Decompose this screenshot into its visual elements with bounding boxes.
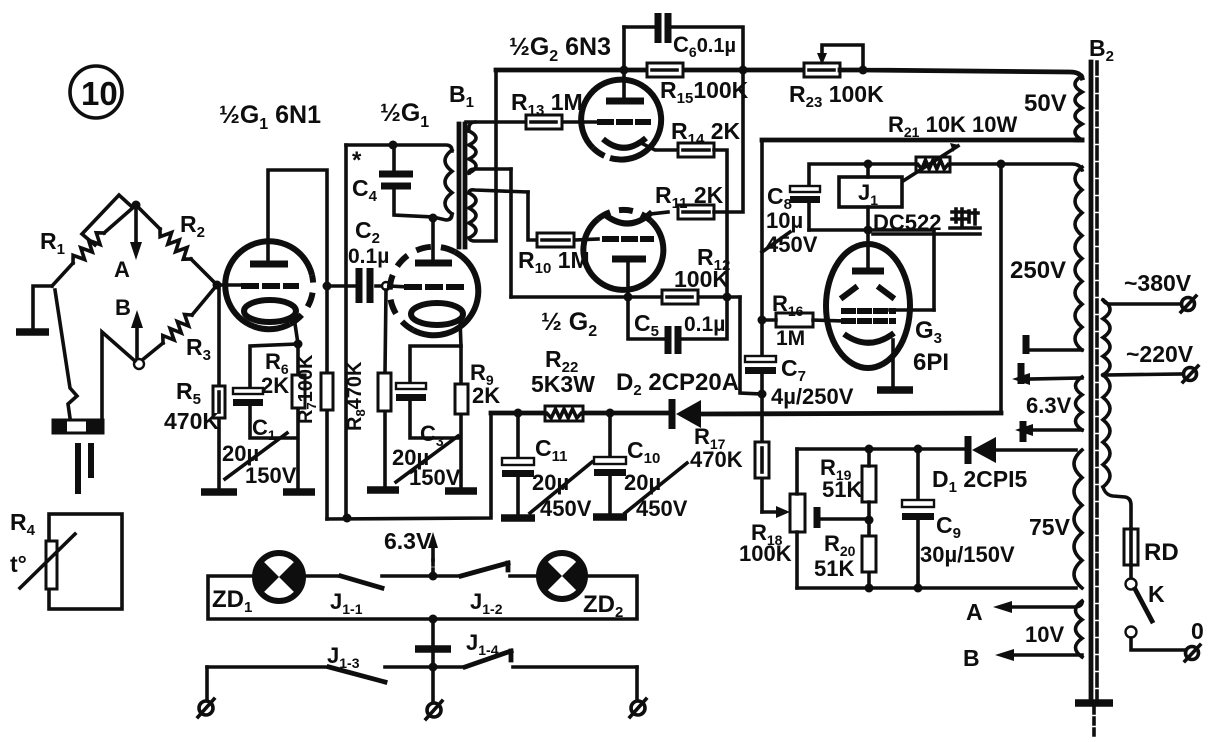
wire x762 left frame — [760, 140, 764, 512]
G2a grid — [600, 119, 648, 125]
svg-text:DC522: DC522 — [873, 210, 941, 235]
resistor R8 — [378, 373, 391, 411]
resistor R15 — [647, 63, 683, 77]
B1 secondary lower leads — [469, 190, 528, 241]
B+ rail y413 — [491, 413, 1001, 414]
node C7 bottom — [758, 390, 767, 399]
svg-text:5K3W: 5K3W — [531, 371, 595, 397]
G2b plate lead — [626, 259, 630, 297]
capacitor C6 — [658, 13, 668, 43]
G1b plate — [415, 260, 452, 267]
wire left node to ground — [33, 286, 52, 328]
top rail to B2 — [840, 70, 1082, 78]
wire bridge edge top-right (R2 edge) — [136, 205, 217, 285]
wire y230 line — [809, 230, 934, 310]
resistor R10 — [537, 233, 574, 247]
terminal center — [426, 701, 442, 719]
winding 75V — [1074, 450, 1082, 588]
feedback tap bar — [814, 507, 821, 528]
triode G2a envelope — [581, 80, 661, 160]
node C11 — [514, 409, 523, 418]
svg-text:B: B — [115, 295, 131, 320]
wire R9/C3 loop — [410, 346, 461, 490]
node C2 left — [323, 282, 332, 291]
250V tap terminal bar — [1023, 335, 1030, 354]
relay J1 box — [839, 177, 902, 207]
resistor R7 — [321, 373, 333, 410]
svg-text:470K: 470K — [690, 447, 743, 472]
wire 50V bottom to y140 rail — [1076, 138, 1082, 143]
svg-text:470K: 470K — [164, 408, 219, 434]
capacitor C10 — [593, 413, 627, 517]
R1 slider bracket — [82, 195, 131, 245]
lamp ZD2 — [539, 553, 585, 599]
resistor R9 — [455, 384, 468, 414]
svg-text:10V: 10V — [1025, 622, 1064, 647]
G3 screen lead — [890, 308, 934, 312]
wire lower grid path — [528, 192, 598, 240]
svg-text:20µ: 20µ — [624, 470, 661, 495]
wire C1 loop — [250, 344, 298, 490]
node R20 bottom — [865, 584, 874, 593]
resistor R14 — [678, 143, 714, 157]
resistor R16 — [776, 313, 813, 327]
capacitor C3 bottom plate — [396, 394, 426, 401]
svg-text:2K: 2K — [261, 373, 289, 398]
G1a cathode — [244, 300, 296, 322]
G3 plate — [852, 268, 884, 275]
wire y164 line — [809, 164, 1001, 187]
slash C1 — [225, 433, 287, 479]
primary winding upper — [1103, 300, 1110, 375]
node R19 top — [865, 445, 874, 454]
node row1 center bottom — [429, 615, 438, 624]
node C9 bottom — [914, 584, 923, 593]
wire bottom node to plug — [102, 332, 135, 418]
G2a plate lead — [622, 27, 626, 101]
capacitor C11 — [501, 413, 535, 518]
capacitor C5 — [668, 326, 678, 354]
arrow A — [134, 210, 138, 244]
node C4 top — [389, 141, 398, 150]
wire center drop to ground and row2 — [431, 619, 435, 667]
svg-text:20µ: 20µ — [532, 470, 569, 495]
wire R17 to R18 wiper — [762, 510, 778, 514]
resistor R21 (boxed zigzag adjustable) — [916, 157, 950, 172]
svg-text:R15100K: R15100K — [660, 77, 749, 107]
6.3V bottom tap — [1033, 428, 1082, 432]
svg-text:51K: 51K — [814, 556, 854, 581]
resistor R18 (pot) — [790, 494, 805, 532]
svg-text:K: K — [1148, 581, 1165, 607]
wire C6 loop top — [624, 27, 743, 70]
wire into C2 — [327, 284, 381, 288]
top rail of bias box — [797, 449, 1076, 450]
heater center ground bar — [415, 645, 451, 653]
node R16 — [758, 316, 767, 325]
svg-text:R11 2K: R11 2K — [655, 182, 724, 212]
G3 control grid — [844, 311, 893, 321]
resistor R8 line — [385, 290, 386, 490]
wire R11 up to feedback node — [714, 70, 743, 212]
svg-text:6.3V: 6.3V — [384, 528, 432, 554]
contact J1-2 — [461, 563, 508, 576]
node bottom of bridge (open) — [134, 359, 144, 369]
capacitor C8 — [790, 186, 820, 230]
winding 6.3V — [1076, 377, 1083, 430]
wire top rail corner to plate node — [496, 68, 624, 73]
wire R18 leads — [795, 449, 799, 588]
svg-text:6PI: 6PI — [913, 349, 949, 376]
resistor R4 element — [46, 541, 57, 589]
connector prongs — [78, 446, 91, 491]
J1 leads — [866, 164, 870, 230]
svg-text:0: 0 — [1191, 618, 1204, 644]
R4 arrow — [20, 534, 75, 588]
bottom rail of bias box — [797, 586, 1076, 590]
G1b cathode lead — [460, 319, 461, 346]
svg-text:2K: 2K — [472, 383, 500, 408]
resistor R19 — [862, 466, 876, 502]
svg-text:A: A — [114, 257, 130, 282]
resistor R13 — [526, 115, 562, 129]
wire center terminal drop — [431, 667, 435, 702]
tetrode G3 envelope — [826, 244, 910, 368]
node J1 top — [864, 160, 873, 169]
resistor R5 — [213, 386, 225, 418]
terminal right — [630, 699, 646, 717]
G2a cathode — [603, 138, 646, 148]
node J1 bottom — [864, 226, 873, 235]
terminal 380V — [1181, 296, 1196, 312]
resistor R12 — [662, 290, 698, 304]
G1b grid — [407, 284, 461, 290]
node plate rail — [620, 66, 629, 75]
resistor R2 — [160, 229, 191, 259]
resistor R6 — [292, 375, 305, 408]
G1a cathode lead — [294, 317, 298, 344]
node row2 center — [429, 663, 438, 672]
svg-text:1M: 1M — [776, 327, 805, 350]
switch K — [1129, 565, 1133, 578]
svg-text:A: A — [966, 599, 983, 625]
capacitor C7 — [745, 356, 776, 374]
primary winding lower — [1103, 375, 1110, 487]
winding 250V — [1075, 167, 1082, 350]
G2a cathode lead — [643, 144, 678, 150]
wire 250V top lead — [1001, 164, 1082, 170]
svg-text:R14 2K: R14 2K — [671, 118, 740, 148]
wire bridge edge bottom-right (R3 edge) — [141, 285, 217, 361]
svg-text:10: 10 — [81, 75, 118, 112]
G1b grid lead — [390, 286, 408, 287]
380V tap — [1103, 300, 1180, 304]
wire left terminal drop — [205, 667, 209, 700]
wire B+ feed down from C4 loop — [344, 145, 348, 518]
R23 wiper arrow — [822, 45, 863, 70]
wire x1001 vertical — [999, 164, 1003, 413]
tap A — [1008, 603, 1082, 607]
node C10 — [606, 409, 615, 418]
lamp ZD1 — [255, 553, 303, 601]
B1 secondary upper — [469, 131, 476, 173]
svg-text:0.1µ: 0.1µ — [348, 245, 389, 268]
svg-text:R7100K: R7100K — [295, 354, 319, 424]
svg-text:100K: 100K — [674, 266, 729, 292]
svg-text:51K: 51K — [822, 477, 862, 502]
node B+ feed joins y518 — [343, 514, 352, 523]
6.3V arrow — [431, 560, 435, 576]
capacitor C4 — [379, 174, 413, 186]
fuse RD — [1124, 529, 1138, 565]
resistor R3 — [163, 315, 192, 344]
G1a grid lead — [217, 283, 245, 287]
wire left node down to plug — [55, 290, 77, 418]
wire C5 loop — [628, 297, 727, 339]
winding 10V — [1076, 601, 1083, 657]
figure number 10 circle — [70, 66, 122, 118]
resistor R22 (boxed zigzag) — [545, 406, 583, 421]
lower rail y297 — [511, 295, 740, 299]
node row1 center top — [429, 572, 438, 581]
svg-text:6.3V: 6.3V — [1026, 393, 1072, 418]
node R23 right — [859, 66, 868, 75]
ground under R8 — [367, 486, 399, 494]
svg-text:30µ/150V: 30µ/150V — [920, 542, 1015, 567]
node right of bridge — [213, 281, 222, 290]
svg-text:B: B — [963, 645, 980, 671]
ground under R9/C3 — [445, 487, 477, 495]
arrow B — [135, 324, 139, 358]
B1 primary winding — [445, 150, 452, 214]
B1 secondary lower — [469, 193, 476, 238]
svg-text:0.1µ: 0.1µ — [684, 313, 725, 336]
G3 screen dashes — [843, 288, 892, 297]
triode G1b envelope — [413, 252, 478, 335]
node grid tube2 (open) — [382, 282, 390, 290]
G2b cathode — [604, 212, 652, 224]
resistor R11 — [678, 205, 714, 219]
resistor R17 — [755, 442, 769, 478]
wire grid line upper (to R13) — [466, 120, 598, 124]
top rail with R15 — [624, 68, 804, 73]
ground input left — [16, 328, 49, 336]
B1 secondary upper leads — [469, 122, 511, 173]
resistor R20 — [862, 536, 876, 572]
terminal 220V — [1183, 366, 1198, 382]
thermistor R4 box — [49, 514, 122, 609]
G2b plate — [612, 256, 646, 263]
svg-text:R23 100K: R23 100K — [789, 81, 884, 111]
G1b plate lead — [431, 218, 435, 263]
tap B — [1010, 653, 1082, 657]
node R19/R20 junction — [865, 516, 874, 525]
G2b cathode lead — [650, 212, 668, 214]
diode D2 — [672, 399, 701, 429]
resistor R7 line — [325, 286, 329, 519]
G2a plate — [606, 98, 644, 105]
row1 rectangle frame — [208, 576, 637, 619]
B2 core — [1089, 62, 1094, 698]
cathode node dot — [294, 340, 303, 349]
G3 plate lead — [866, 230, 870, 270]
220V tap — [1103, 374, 1183, 375]
capacitor C2 — [359, 268, 370, 303]
wire primary bottom to RD — [1103, 487, 1131, 529]
wire y140 rail — [762, 138, 1082, 143]
wire R14 to lower rail — [714, 150, 727, 296]
svg-text:75V: 75V — [1029, 514, 1071, 540]
capacitor C3 top plate — [396, 383, 426, 389]
ground under R6/C1 — [283, 488, 315, 496]
triode G1a envelope — [225, 241, 312, 329]
wire plate-load bus y518 to B+ rail — [327, 413, 491, 519]
wire left frame vertical x496 — [494, 71, 498, 240]
svg-text:R10 1M: R10 1M — [518, 247, 590, 277]
svg-text:150V: 150V — [245, 463, 297, 488]
G3 cathode lead — [891, 340, 895, 388]
wire x511 upper coil bottom to lower rail — [509, 169, 513, 297]
svg-text:½G2 6N3: ½G2 6N3 — [509, 33, 611, 65]
winding 50V — [1075, 76, 1082, 140]
resistor R23 — [804, 63, 840, 77]
diode D1 — [968, 436, 996, 464]
G2b grid — [605, 236, 651, 242]
capacitor C1 top plate — [233, 388, 263, 394]
svg-text:C60.1µ: C60.1µ — [673, 32, 736, 60]
svg-text:50V: 50V — [1024, 90, 1067, 117]
svg-text:~380V: ~380V — [1124, 270, 1192, 296]
B1 core — [459, 124, 465, 247]
node C6 right — [739, 66, 748, 75]
svg-text:100K: 100K — [739, 541, 792, 566]
contact J1-1 — [341, 576, 382, 588]
contact J1-4 — [465, 651, 511, 667]
node plate/B1 bottom — [429, 214, 438, 223]
G1a plate lead over to C2 node — [268, 170, 327, 286]
G1b cathode — [411, 303, 463, 325]
svg-text:½G1 6N1: ½G1 6N1 — [219, 101, 321, 133]
connector plug bar — [53, 420, 103, 433]
ground under G3 — [877, 386, 913, 394]
wire C4 vertical — [346, 145, 433, 217]
terminal left — [198, 699, 214, 717]
svg-text:250V: 250V — [1010, 257, 1066, 284]
node top of bridge — [132, 201, 141, 210]
svg-text:RD: RD — [1144, 539, 1179, 566]
svg-text:D1 2CPI5: D1 2CPI5 — [932, 466, 1027, 496]
svg-text:*: * — [352, 147, 362, 174]
wire 250V bottom tap — [1030, 348, 1082, 352]
G1a grid — [244, 283, 296, 289]
node C9 top — [914, 445, 923, 454]
svg-text:10µ: 10µ — [766, 208, 803, 233]
row2 line — [207, 665, 637, 669]
6.3V top tap — [1030, 378, 1082, 379]
ground under R5 — [201, 488, 237, 496]
terminal 0 — [1185, 645, 1200, 661]
wire output node to C7 junction — [740, 297, 762, 394]
svg-text:t°: t° — [10, 551, 27, 577]
svg-text:4µ/250V: 4µ/250V — [771, 384, 854, 409]
wire bridge edge top-left (R1 edge) — [52, 205, 136, 286]
svg-text:R13 1M: R13 1M — [511, 89, 583, 119]
node lower tube plate — [624, 293, 633, 302]
B2 core ground — [1075, 699, 1113, 707]
G3 cathode — [844, 333, 894, 343]
type glyph (Chinese) — [950, 209, 980, 228]
slash C3 — [396, 436, 458, 482]
resistor R1 — [73, 233, 104, 263]
capacitor C9 — [902, 449, 934, 588]
node R12 right — [723, 293, 732, 302]
svg-text:~220V: ~220V — [1126, 341, 1194, 367]
node R21 right — [997, 160, 1006, 169]
wire right terminal drop — [635, 667, 639, 700]
G1a plate — [250, 261, 288, 268]
triode G2b envelope (inverted) — [583, 219, 663, 290]
wire R5 drop — [217, 285, 221, 490]
contact J1-3 — [329, 667, 385, 682]
B1 primary leads — [393, 145, 452, 220]
capacitor C1 bottom plate — [233, 399, 263, 406]
